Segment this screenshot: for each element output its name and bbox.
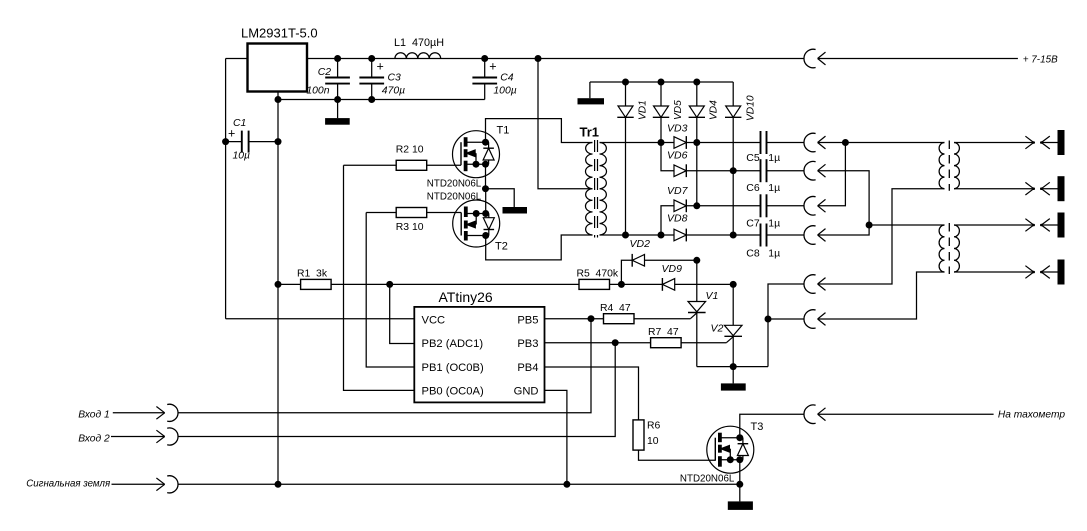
wire VD9 out: [675, 283, 734, 285]
wire conn6 arc side: [768, 318, 804, 320]
transistor T2: [453, 200, 500, 247]
svg-text:PB4: PB4: [517, 362, 538, 374]
ground below C2: [337, 100, 339, 119]
wire PB3 to R7: [544, 342, 651, 344]
connector rail3: [804, 197, 816, 216]
wire Вход1: [178, 319, 591, 413]
svg-text:GND: GND: [514, 385, 539, 397]
wire T3 drain: [740, 414, 804, 438]
junction C3 top: [368, 55, 375, 62]
wire T3 source: [739, 460, 741, 485]
wire PB2 tap down: [390, 284, 415, 343]
svg-text:R2 10: R2 10: [396, 145, 424, 156]
svg-text:C3: C3: [388, 73, 402, 84]
svg-text:C5: C5: [746, 152, 760, 164]
diode VD1: [625, 82, 627, 106]
svg-text:+: +: [377, 60, 384, 74]
svg-text:C2: C2: [318, 67, 332, 78]
svg-text:R6: R6: [647, 420, 661, 431]
resistor R6: [633, 420, 644, 450]
resistor R1: [278, 283, 301, 285]
svg-text:T1: T1: [497, 125, 510, 137]
junction sig gnd GND: [563, 481, 570, 488]
junction C2 bottom: [334, 96, 341, 103]
connector Вход1: [156, 407, 164, 413]
junction PB5: [588, 315, 595, 322]
terminal out2: [1025, 182, 1033, 188]
svg-text:1µ: 1µ: [768, 218, 780, 230]
junction bus VD1: [622, 79, 629, 86]
junction regulator gnd: [275, 96, 282, 103]
wire conn5 arc side: [768, 284, 804, 367]
junction rail4 VD10: [730, 232, 737, 239]
transformer TrA core: [948, 141, 950, 191]
svg-text:+: +: [489, 60, 496, 74]
resistor R7: [651, 338, 682, 348]
capacitor C3: [371, 59, 373, 78]
junction sig gnd B: [275, 481, 282, 488]
ground V1V2: [732, 367, 734, 384]
thyristor V1: [688, 302, 706, 312]
transistor T3: [707, 426, 754, 473]
diode VD9: [662, 279, 674, 291]
svg-text:R1 3k: R1 3k: [297, 269, 328, 280]
svg-text:ATtiny26: ATtiny26: [439, 289, 493, 305]
wire rail1 to TrA: [845, 142, 944, 144]
wire V1 anode: [696, 260, 698, 301]
junction C4 top: [481, 55, 488, 62]
wire TrB sec top: [954, 224, 1034, 226]
diode VD7: [674, 200, 686, 212]
svg-text:470µ: 470µ: [382, 86, 405, 97]
connector rail2: [804, 161, 816, 180]
resistor R2: [396, 160, 427, 170]
thyristor V2: [724, 325, 742, 335]
svg-text:T2: T2: [495, 241, 508, 253]
svg-text:T3: T3: [751, 421, 764, 433]
svg-text:LM2931T-5.0: LM2931T-5.0: [241, 26, 318, 41]
wire rail3 to C7: [686, 205, 760, 207]
wire V2 anode: [732, 284, 734, 325]
IC ATtiny26: [414, 307, 544, 403]
junction C1 left: [222, 138, 229, 145]
junction rail3 VD4: [693, 202, 700, 209]
wire GND pin: [544, 390, 567, 484]
svg-text:R4 47: R4 47: [600, 303, 631, 314]
wire Вход1 lead: [113, 412, 165, 414]
connector feedback A: [804, 275, 816, 294]
wire PB1 to R3: [366, 212, 396, 214]
capacitor C4: [484, 59, 486, 78]
node B vertical (gnd rail down to signal ground): [277, 100, 279, 485]
svg-text:PB3: PB3: [517, 338, 538, 350]
junction VD2 branch: [618, 281, 625, 288]
terminal out1: [1025, 136, 1033, 142]
wire regulator input from node A: [226, 58, 248, 60]
wire VD7 branch: [661, 206, 674, 235]
capacitor C1: [226, 141, 242, 143]
svg-text:VD2: VD2: [630, 238, 651, 250]
junction rail2 VD10: [730, 167, 737, 174]
junction center tap top: [535, 55, 542, 62]
wire VD2 branch: [621, 260, 632, 284]
junction R1 left: [275, 281, 282, 288]
connector rail1: [804, 133, 816, 152]
wire T1 drain to Tr1: [486, 119, 593, 143]
capacitor C7: [760, 194, 762, 217]
transformer TrB core: [948, 223, 950, 274]
junction rail1 VD4: [693, 139, 700, 146]
junction T3 source gnd: [736, 481, 743, 488]
svg-text:Вход 2: Вход 2: [78, 434, 110, 445]
svg-text:C1: C1: [233, 118, 246, 129]
wire R6 to T3 gate: [639, 450, 716, 460]
wire to TrB primary: [869, 224, 944, 226]
wire +7-15V: [818, 58, 1018, 60]
node A vertical (input rail to C1 and VCC): [225, 59, 227, 319]
svg-text:C7: C7: [746, 218, 760, 230]
transformer Tr1 primary: [585, 143, 592, 236]
svg-text:100n: 100n: [306, 86, 329, 97]
svg-text:10µ: 10µ: [233, 151, 251, 162]
junction PB3: [612, 339, 619, 346]
wire T2 source to Tr1: [486, 235, 593, 260]
transformer TrB secondary: [954, 225, 959, 272]
wire rail4 to C8: [686, 234, 760, 236]
junction rail2 rail4: [866, 222, 873, 229]
wire conn5 to TrA bottom: [818, 189, 945, 284]
wire thyristor gnd rail: [697, 366, 768, 368]
wire PB4 to R6: [544, 367, 638, 420]
connector sig gnd: [156, 478, 164, 484]
svg-text:1µ: 1µ: [768, 152, 780, 164]
wire TrA sec top: [954, 142, 1034, 144]
svg-text:+ 7-15В: + 7-15В: [1023, 55, 1058, 66]
junction C2 top: [334, 55, 341, 62]
connector rail4: [804, 226, 816, 245]
diode VD2: [632, 255, 644, 267]
capacitor C8: [760, 224, 762, 247]
wire rail4 out: [818, 225, 870, 235]
svg-text:VD7: VD7: [667, 185, 689, 197]
transistor T1: [453, 131, 500, 178]
transformer TrB primary: [939, 225, 944, 272]
inductor L1: [395, 53, 441, 59]
wire V2 cathode: [732, 336, 734, 366]
svg-text:V2: V2: [711, 323, 724, 335]
wire TrA sec bottom: [954, 188, 1034, 190]
wire VD6 branch: [661, 143, 674, 171]
connector tachometer: [804, 405, 816, 424]
resistor R4: [604, 314, 635, 324]
svg-text:VD1: VD1: [637, 100, 648, 120]
connector Вход2: [156, 430, 164, 436]
svg-text:10: 10: [647, 436, 659, 447]
svg-text:V1: V1: [706, 290, 719, 302]
capacitor C6: [760, 159, 762, 182]
grounded bus: [590, 81, 733, 83]
wire VD2 out: [645, 259, 697, 261]
wire T2 top to junction: [485, 189, 487, 212]
svg-text:На тахометр: На тахометр: [998, 410, 1065, 421]
svg-text:C6: C6: [746, 182, 760, 194]
svg-text:L1 470µH: L1 470µH: [394, 37, 444, 49]
wire rail2 to C6: [686, 170, 760, 172]
svg-text:1µ: 1µ: [768, 248, 780, 260]
wire T1 source: [485, 164, 487, 189]
junction rail1 rail3: [842, 139, 849, 146]
svg-text:VCC: VCC: [422, 315, 446, 327]
diode VD3: [674, 137, 686, 149]
svg-text:1µ: 1µ: [768, 182, 780, 194]
ground T3: [739, 484, 741, 501]
svg-text:NTD20N06L: NTD20N06L: [680, 473, 735, 484]
wire rail1 Tr1 to VD3: [600, 142, 675, 144]
svg-text:R3 10: R3 10: [396, 222, 424, 233]
resistor R5: [579, 279, 610, 289]
wire rail3 out: [818, 143, 846, 206]
junction PB2 tap: [386, 281, 393, 288]
wire conn6 to TrB bottom: [818, 272, 945, 319]
wire VCC: [226, 318, 415, 320]
junction C3 bottom: [368, 96, 375, 103]
diode VD8: [674, 229, 686, 241]
wire V1 cathode: [696, 313, 698, 367]
voltage regulator U1 LM2931T-5.0: [248, 44, 308, 92]
junction VD2 V1: [693, 257, 700, 264]
wire PB1 to R3 riser: [366, 213, 415, 368]
svg-text:PB1 (OC0B): PB1 (OC0B): [422, 362, 484, 374]
wire sig gnd lead: [112, 483, 165, 485]
wire rail4 Tr1 to VD8: [600, 234, 675, 236]
svg-text:VD3: VD3: [667, 123, 688, 135]
junction rail4 VD1: [622, 232, 629, 239]
capacitor C5: [760, 131, 762, 154]
svg-text:PB5: PB5: [517, 315, 538, 327]
wire Вход2: [178, 343, 615, 437]
connector X1 +7-15V: [804, 49, 816, 68]
svg-text:VD9: VD9: [662, 263, 683, 275]
junction rail4 VD7: [658, 232, 665, 239]
diode VD4: [696, 82, 698, 106]
wire regulator output bus: [307, 58, 804, 60]
svg-text:VD6: VD6: [667, 150, 688, 162]
wire TrB sec bottom: [954, 271, 1034, 273]
svg-text:C4: C4: [500, 73, 514, 84]
junction VD9 V2: [730, 281, 737, 288]
diode VD5: [660, 82, 662, 106]
diode VD6: [674, 165, 686, 177]
transformer Tr1 core: [594, 140, 596, 238]
svg-text:Tr1: Tr1: [580, 125, 600, 140]
ground mid: [503, 207, 528, 214]
wire PB0 to R2: [344, 164, 397, 166]
wire R4 to V1 gate: [634, 318, 691, 320]
wire VD10 to rail4: [732, 171, 734, 235]
wire R1 to R5: [390, 283, 579, 285]
ground of bus: [589, 82, 591, 98]
svg-text:VD4: VD4: [709, 100, 720, 120]
wire rail1 to C5: [686, 142, 760, 144]
junction rail1 VD5: [658, 139, 665, 146]
terminal out4: [1025, 266, 1033, 272]
svg-text:C8: C8: [746, 248, 760, 260]
transformer TrA secondary: [954, 143, 959, 189]
wire R2 to T1 gate: [427, 164, 461, 166]
svg-text:100µ: 100µ: [493, 86, 516, 97]
svg-text:VD5: VD5: [673, 100, 684, 120]
wire PB5 to R4: [544, 318, 603, 320]
wire R5 to VD9: [610, 283, 663, 285]
wire R3 to T2 gate: [427, 212, 462, 214]
svg-text:PB0 (OC0A): PB0 (OC0A): [422, 385, 484, 397]
wire regulator ground pin: [277, 92, 279, 100]
svg-text:VD8: VD8: [667, 213, 688, 225]
junction gnd rail: [730, 363, 737, 370]
junction C1 right: [275, 138, 282, 145]
svg-text:R7 47: R7 47: [648, 327, 679, 338]
svg-text:R5 470k: R5 470k: [577, 269, 619, 280]
wire to mid ground: [486, 189, 515, 207]
resistor R3: [396, 208, 427, 218]
junction conn6: [765, 316, 772, 323]
terminal out3: [1025, 219, 1033, 225]
wire signal ground: [178, 483, 740, 485]
svg-text:PB2 (ADC1): PB2 (ADC1): [422, 338, 484, 350]
transformer Tr1 secondary: [600, 143, 607, 236]
wire rail1 out: [818, 142, 846, 144]
wire Tr1 center tap: [538, 59, 593, 189]
junction bus VD5: [658, 79, 665, 86]
wire Вход2 lead: [111, 436, 165, 438]
svg-text:NTD20N06L: NTD20N06L: [427, 192, 482, 203]
junction T1-T2: [482, 185, 489, 192]
connector feedback B: [804, 310, 816, 329]
svg-text:NTD20N06L: NTD20N06L: [427, 178, 482, 189]
wire PB0 to R2 riser: [344, 165, 416, 390]
svg-text:VD10: VD10: [746, 95, 757, 121]
junction bus VD4: [693, 79, 700, 86]
wire C-filter bottom rail: [278, 99, 485, 101]
wire tachometer: [818, 413, 994, 415]
svg-text:Вход 1: Вход 1: [78, 409, 110, 420]
transformer TrA primary: [939, 143, 944, 189]
capacitor C2: [337, 59, 339, 78]
diode VD10: [732, 82, 734, 106]
wire rail2 out: [818, 171, 870, 225]
svg-text:Сигнальная земля: Сигнальная земля: [26, 479, 110, 490]
wire R7 to V2 gate: [681, 342, 726, 344]
